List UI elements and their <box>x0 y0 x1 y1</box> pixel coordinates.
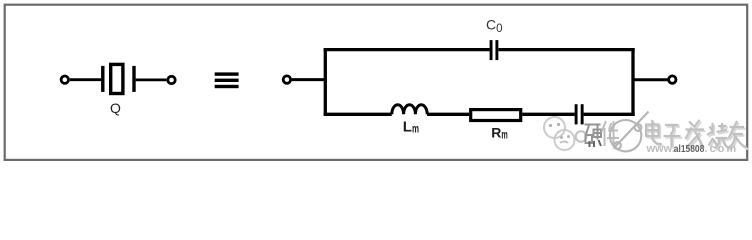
wire <box>136 79 167 82</box>
wire <box>70 78 101 81</box>
wire bottom edge left of Lm <box>324 113 392 116</box>
crystal Q <box>103 64 134 116</box>
inductor Lm <box>392 105 427 136</box>
terminal node right of crystal <box>168 76 175 83</box>
wire <box>292 78 326 81</box>
svg-text:Rm: Rm <box>491 124 508 141</box>
watermark (decorative) <box>544 112 748 156</box>
wire bottom edge right of Cm <box>584 113 635 116</box>
terminal node left of crystal <box>61 76 68 83</box>
capacitor C0 <box>486 16 503 60</box>
svg-text:www.: www. <box>646 143 675 155</box>
capacitor Cm <box>576 104 582 124</box>
svg-text:.com: .com <box>705 143 739 155</box>
resistor Rm <box>471 110 521 142</box>
wire top edge left of C0 <box>324 48 490 51</box>
equivalence symbol <box>215 72 239 88</box>
terminal node left of equivalent circuit <box>283 76 290 83</box>
svg-text:Lm: Lm <box>403 118 419 135</box>
wire between Lm and Rm <box>427 113 469 116</box>
wire <box>633 78 668 81</box>
wire top edge right of C0 <box>499 48 635 51</box>
wire left branch vertical <box>324 48 327 116</box>
svg-text:Q: Q <box>110 100 121 116</box>
terminal node right of equivalent circuit <box>669 76 676 83</box>
wire right branch vertical <box>631 48 634 116</box>
svg-text:al15808: al15808 <box>674 143 705 155</box>
wire between Rm and Cm <box>522 113 574 116</box>
